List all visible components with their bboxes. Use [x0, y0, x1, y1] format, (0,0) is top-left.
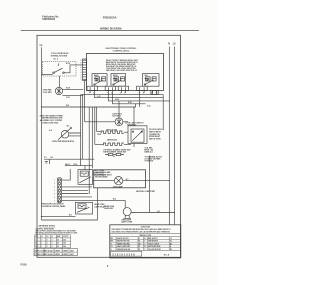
wire L1 rail [41, 47, 43, 220]
svg-text:L2: L2 [47, 236, 49, 238]
svg-text:BEFORE SERVICING UNIT.: BEFORE SERVICING UNIT. [42, 118, 63, 120]
svg-text:OVEN TEMP SENSOR (RTD): OVEN TEMP SENSOR (RTD) [52, 141, 74, 143]
wire to latch motor [85, 121, 116, 123]
svg-text:UPPER RIGHT: UPPER RIGHT [149, 136, 160, 138]
wire bus y103.8 [113, 93, 146, 104]
svg-text:30: 30 [57, 239, 59, 241]
svg-text:3: 3 [52, 243, 53, 245]
svg-text:1: 1 [41, 246, 42, 248]
wires from terminal block [62, 169, 126, 200]
svg-text:W-2: W-2 [113, 199, 116, 201]
wire bottom run [42, 188, 98, 220]
door latch switch box [128, 126, 147, 144]
wire drop to latch motor [118, 101, 120, 118]
EOC bake relay box [92, 74, 107, 87]
svg-text:2: 2 [47, 246, 48, 248]
svg-text:CONTROL (EOC): CONTROL (EOC) [113, 50, 130, 52]
wire relay to fan motor [58, 76, 60, 87]
svg-text:3 WIRE: 3 WIRE [54, 251, 59, 253]
svg-text:L1: L1 [41, 236, 43, 238]
svg-text:3 WIRE: 3 WIRE [54, 254, 59, 256]
svg-text:50: 50 [57, 246, 59, 248]
bake element [95, 143, 131, 145]
svg-text:H1: H1 [138, 241, 140, 243]
svg-text:RED SUPPLY: RED SUPPLY [148, 238, 158, 240]
svg-text:GREEN GROUND: GREEN GROUND [117, 243, 131, 245]
motor oven fan symbol [55, 87, 62, 94]
wire L1 to relay [42, 74, 53, 76]
svg-text:12.1: 12.1 [35, 246, 38, 248]
svg-text:1: 1 [41, 239, 42, 241]
wire bus y107 from L1 [42, 93, 140, 107]
svg-text:P-1: P-1 [44, 157, 47, 159]
svg-text:No. 5: No. 5 [54, 58, 58, 60]
terminal block [57, 178, 61, 203]
wire bus y97.5 [95, 93, 164, 130]
svg-text:Y-38: Y-38 [66, 97, 69, 99]
svg-text:3: 3 [52, 239, 53, 241]
svg-text:L1: L1 [138, 238, 140, 240]
svg-text:W-18: W-18 [66, 88, 70, 90]
caution box [110, 225, 181, 258]
svg-text:FEB30S5A: FEB30S5A [103, 15, 117, 19]
svg-text:T: T [144, 241, 145, 243]
svg-text:1: 1 [41, 243, 42, 245]
relay No.5 dashed enclosure [43, 62, 77, 77]
svg-text:BK-12: BK-12 [65, 164, 70, 166]
lamp receptacle box [94, 170, 146, 188]
relay ROL box [76, 202, 93, 214]
svg-text:D1: D1 [138, 249, 140, 251]
wire rear lamp to rails [131, 212, 174, 214]
part number [111, 251, 142, 256]
EOC pin connector P3 (below edge) [151, 91, 158, 95]
svg-text:COOL MTR: COOL MTR [43, 92, 53, 94]
wire W-1 [42, 215, 76, 217]
svg-text:N: N [168, 42, 170, 45]
svg-text:BROWN HTR SW.: BROWN HTR SW. [117, 241, 130, 243]
svg-text:2: 2 [47, 239, 48, 241]
wire bus y94.6 [81, 94, 164, 96]
header rule [21, 29, 199, 31]
EOC connector P1 [83, 59, 87, 81]
svg-text:N-1: N-1 [51, 157, 54, 159]
diagram border frame [37, 35, 181, 257]
rear lamp symbol [123, 208, 131, 216]
svg-text:BROIL 16.9: BROIL 16.9 [145, 150, 154, 152]
svg-text:W-1: W-1 [69, 215, 72, 217]
oven lamp symbol [114, 177, 122, 185]
svg-text:CONDUCTORS ONLY.: CONDUCTORS ONLY. [42, 122, 59, 124]
wire L3 rail [173, 47, 175, 225]
EOC DLB relay box [143, 74, 160, 87]
wire motor to EOC top [63, 88, 84, 90]
relay No.5 contact [53, 72, 55, 74]
svg-text:W-36: W-36 [115, 99, 119, 101]
svg-text:CAUTION: CAUTION [141, 226, 151, 229]
svg-text:2: 2 [47, 243, 48, 245]
svg-text:5995360232: 5995360232 [42, 19, 55, 21]
wire bundle drops [89, 107, 97, 194]
svg-text:N-1: N-1 [157, 211, 160, 213]
relay RDL box [78, 170, 93, 185]
svg-text:120V 60HZ: 120V 60HZ [112, 116, 120, 118]
wire relay to EOC w/label [64, 65, 83, 73]
svg-text:YELLOW MOTOR: YELLOW MOTOR [148, 249, 162, 251]
wiring code table [110, 237, 181, 251]
svg-text:VOLTS: VOLTS [63, 236, 68, 238]
EOC broil relay box [111, 74, 126, 87]
svg-text:L-35: L-35 [97, 96, 100, 98]
svg-text:GY: GY [111, 246, 113, 248]
relay RDL wire [65, 166, 92, 170]
svg-text:9.6: 9.6 [35, 243, 37, 245]
svg-text:S1: S1 [170, 241, 172, 243]
svg-text:M1: M1 [170, 249, 172, 251]
svg-text:7.2: 7.2 [35, 239, 37, 241]
svg-text:3: 3 [52, 246, 53, 248]
svg-text:SWITCH MECH.: SWITCH MECH. [149, 132, 162, 134]
svg-text:3181610358: 3181610358 [112, 253, 135, 256]
svg-text:W-18: W-18 [66, 63, 70, 65]
EOC box [87, 54, 164, 91]
broil element [97, 131, 128, 133]
svg-text:V-33: V-33 [147, 106, 150, 108]
sensor probe symbol [61, 131, 69, 139]
latch motor symbol [115, 118, 123, 126]
svg-text:COIL RES.: COIL RES. [145, 147, 154, 149]
svg-text:Publication No.: Publication No. [42, 15, 59, 18]
svg-text:W-25: W-25 [97, 134, 101, 136]
svg-text:Y: Y [144, 249, 145, 251]
svg-text:BE GROUNDED: BE GROUNDED [95, 176, 108, 178]
wire right drop [149, 156, 151, 213]
wire motor to EOC bottom [62, 94, 83, 96]
svg-text:N-1: N-1 [126, 179, 129, 181]
amperage table [35, 235, 71, 248]
supply cord rows [34, 248, 77, 255]
svg-text:B-6: B-6 [67, 126, 70, 128]
fuse links [108, 153, 113, 155]
svg-text:N-30: N-30 [74, 164, 78, 166]
svg-text:L3: L3 [170, 238, 172, 240]
svg-text:SIDE OF OVEN: SIDE OF OVEN [149, 138, 161, 140]
EOC pin connector P2 [87, 86, 98, 90]
svg-text:M2: M2 [170, 243, 172, 245]
svg-text:P/100: P/100 [21, 265, 28, 267]
wires to lamp [92, 180, 169, 182]
svg-text:Rev. A: Rev. A [164, 253, 170, 256]
svg-text:OVEN DOOR LIGHT SWITCH: OVEN DOOR LIGHT SWITCH [41, 204, 64, 206]
svg-text:P2: P2 [138, 246, 140, 248]
wire drop to latch box [133, 107, 135, 126]
svg-text:NOTE: DISCONNECT POWER: NOTE: DISCONNECT POWER [40, 115, 64, 117]
wire bus y100.9 to N rail [108, 93, 169, 101]
wire N rail [168, 47, 170, 225]
EOC bottom pins [90, 91, 157, 94]
wire bundle left [81, 95, 83, 166]
svg-text:W-2: W-2 [66, 105, 69, 107]
svg-text:NORMAL KITCHEN: NORMAL KITCHEN [51, 54, 68, 57]
